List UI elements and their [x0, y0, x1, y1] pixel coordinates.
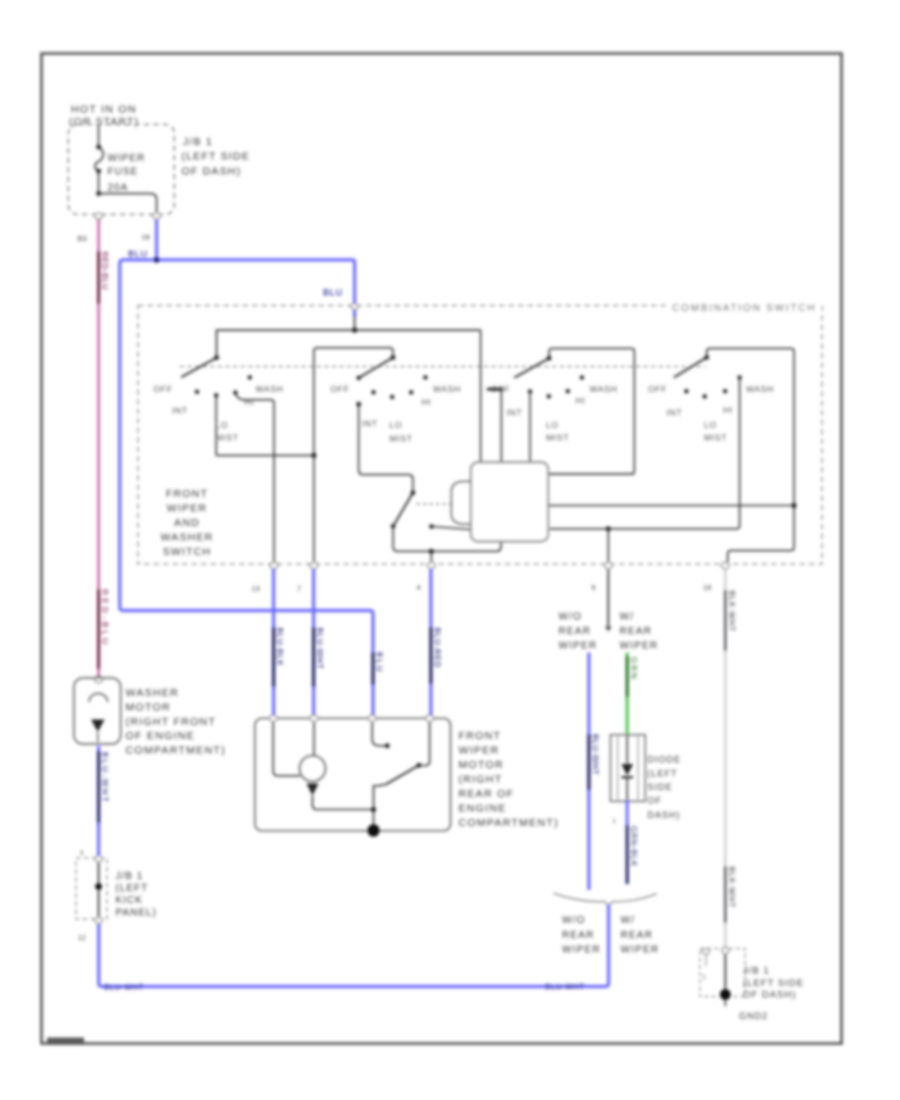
- svg-text:LO: LO: [704, 420, 717, 430]
- svg-text:HOT IN ON: HOT IN ON: [71, 104, 137, 116]
- ground (wiper motor case): [367, 824, 379, 836]
- svg-text:BLU-BLK: BLU-BLK: [275, 628, 284, 667]
- blue feed wire from fuse: [155, 219, 158, 260]
- pink wire (washer feed): [97, 219, 100, 678]
- svg-text:(LEFT: (LEFT: [648, 769, 678, 779]
- svg-text:BLU-WHT: BLU-WHT: [315, 628, 324, 670]
- svg-text:W/: W/: [621, 915, 636, 926]
- svg-text:W/O: W/O: [559, 612, 583, 623]
- svg-text:AND: AND: [174, 517, 200, 529]
- svg-text:HI: HI: [422, 397, 432, 407]
- svg-text:12: 12: [78, 935, 86, 942]
- svg-text:MIST: MIST: [546, 433, 569, 443]
- svg-text:WIPER: WIPER: [620, 641, 659, 652]
- washer contact bar: [487, 388, 504, 391]
- svg-text:BLU-WHT: BLU-WHT: [545, 982, 585, 991]
- pin 6 wire and option split: [607, 569, 609, 630]
- svg-text:BLU-RED: BLU-RED: [432, 628, 441, 669]
- svg-text:OFF: OFF: [491, 384, 510, 394]
- svg-text:1: 1: [613, 818, 617, 825]
- svg-text:4: 4: [417, 583, 421, 592]
- svg-text:WIPER: WIPER: [562, 945, 601, 956]
- svg-text:18: 18: [142, 233, 150, 242]
- svg-text:W/O: W/O: [562, 915, 586, 926]
- top rail: [217, 330, 481, 358]
- svg-text:REAR: REAR: [621, 930, 654, 941]
- svg-text:RED-BLU: RED-BLU: [100, 252, 109, 291]
- switch group 3: [549, 348, 634, 474]
- svg-text:PANEL): PANEL): [116, 908, 157, 919]
- lower lever of group 2 (intermittent contact): [393, 493, 413, 527]
- svg-text:OFF: OFF: [648, 384, 667, 394]
- svg-text:WASH: WASH: [256, 384, 284, 394]
- svg-text:INT: INT: [507, 408, 523, 418]
- svg-text:INT: INT: [362, 419, 378, 429]
- svg-text:OF DASH): OF DASH): [743, 990, 796, 1001]
- svg-text:BLU: BLU: [375, 652, 384, 674]
- svg-text:(LEFT SIDE: (LEFT SIDE: [743, 978, 804, 989]
- svg-text:FUSE: FUSE: [108, 167, 139, 178]
- svg-text:W/: W/: [620, 612, 635, 623]
- svg-text:(RIGHT FRONT: (RIGHT FRONT: [126, 716, 217, 728]
- right J/B 1 ground box: [700, 949, 745, 997]
- wire color label underlays: [99, 251, 726, 923]
- intermittent relay: [451, 481, 471, 524]
- combination switch bottom pins: [270, 562, 729, 568]
- junction node (BLU feed to switch rail): [352, 327, 357, 332]
- svg-text:HI: HI: [245, 397, 255, 407]
- svg-text:FRONT: FRONT: [166, 488, 208, 500]
- diode: [611, 735, 646, 802]
- svg-text:OF: OF: [648, 796, 663, 806]
- front wiper and washer switch label: [161, 488, 214, 558]
- svg-text:GRN: GRN: [629, 657, 638, 681]
- switch group 1: [181, 358, 314, 564]
- svg-text:WIPER: WIPER: [108, 153, 146, 164]
- blue wire washer motor to kick panel J/B: [97, 746, 100, 857]
- svg-text:OFF: OFF: [331, 384, 350, 394]
- blue return wire to kick panel: [99, 905, 609, 987]
- switch group 2: [314, 348, 393, 456]
- svg-text:BLK-WHT: BLK-WHT: [727, 867, 736, 909]
- svg-text:WASH: WASH: [433, 384, 461, 394]
- mechanical gang dashed line: [180, 366, 706, 368]
- svg-text:COMPARTMENT): COMPARTMENT): [459, 817, 559, 829]
- washer motor: [95, 676, 103, 682]
- kick panel J/B: [76, 858, 107, 919]
- svg-text:WASHER: WASHER: [126, 687, 180, 699]
- svg-text:WIPER: WIPER: [167, 503, 207, 515]
- svg-text:5: 5: [80, 850, 84, 857]
- combination switch dashed box: [138, 306, 822, 565]
- svg-text:13: 13: [252, 584, 260, 593]
- svg-text:INT: INT: [667, 408, 683, 418]
- svg-text:REAR: REAR: [562, 930, 595, 941]
- svg-text:REAR: REAR: [559, 626, 592, 637]
- svg-text:DIODE: DIODE: [648, 755, 682, 765]
- svg-text:KICK: KICK: [116, 895, 143, 906]
- svg-text:OF ENGINE: OF ENGINE: [126, 730, 195, 742]
- svg-text:SWITCH: SWITCH: [163, 546, 212, 558]
- svg-text:HI: HI: [576, 396, 586, 406]
- svg-text:LO: LO: [390, 420, 403, 430]
- svg-text:WIPER: WIPER: [559, 641, 598, 652]
- svg-text:SIDE: SIDE: [648, 782, 673, 792]
- svg-text:DASH): DASH): [648, 810, 681, 820]
- svg-text:J/B 1: J/B 1: [743, 966, 770, 977]
- svg-text:ENGINE: ENGINE: [459, 803, 507, 815]
- svg-text:COMBINATION SWITCH: COMBINATION SWITCH: [672, 303, 816, 314]
- svg-text:WASH: WASH: [590, 384, 618, 394]
- blue wires to wiper motor: [272, 569, 275, 716]
- svg-text:MOTOR: MOTOR: [126, 701, 171, 713]
- svg-text:6: 6: [592, 583, 596, 592]
- border frame: [42, 54, 842, 1044]
- right white wire to ground: [724, 569, 726, 947]
- svg-text:WIPER: WIPER: [459, 745, 500, 757]
- svg-text:7: 7: [297, 584, 301, 593]
- svg-text:FRONT: FRONT: [459, 730, 502, 742]
- frame corner part-number blob: [47, 1038, 84, 1046]
- fuse box pins: [95, 213, 103, 219]
- svg-text:(RIGHT: (RIGHT: [459, 774, 503, 786]
- svg-text:WIPER: WIPER: [621, 945, 660, 956]
- ground G2 (J/B 1): [720, 989, 731, 1000]
- svg-text:BLU-WHT: BLU-WHT: [104, 983, 144, 992]
- svg-text:OF DASH): OF DASH): [182, 165, 242, 177]
- svg-text:REAR: REAR: [620, 626, 653, 637]
- svg-text:LO: LO: [216, 420, 229, 430]
- svg-text:RED-BLU: RED-BLU: [100, 589, 110, 647]
- svg-text:LO: LO: [546, 420, 559, 430]
- svg-text:WASH: WASH: [746, 384, 774, 394]
- J/B 1 fuse box (dashed): [68, 124, 174, 214]
- svg-text:BLU: BLU: [323, 288, 343, 298]
- switch group 4: [707, 348, 794, 564]
- svg-text:J/B 1: J/B 1: [183, 136, 213, 148]
- svg-text:(LEFT: (LEFT: [116, 883, 149, 894]
- wiper fuse 20A: [95, 124, 157, 214]
- svg-text:OFF: OFF: [154, 384, 173, 394]
- svg-text:REAR OF: REAR OF: [459, 788, 515, 800]
- svg-text:(LEFT SIDE: (LEFT SIDE: [182, 151, 250, 163]
- svg-text:1: 1: [703, 975, 707, 981]
- junction (kick panel J/B splice): [95, 883, 102, 890]
- svg-text:MOTOR: MOTOR: [459, 759, 504, 771]
- svg-text:BLK-WHT: BLK-WHT: [727, 591, 736, 633]
- svg-text:BLU-WHT: BLU-WHT: [590, 734, 599, 775]
- svg-text:COMPARTMENT): COMPARTMENT): [126, 745, 226, 757]
- svg-text:20A: 20A: [108, 183, 129, 194]
- svg-text:GRN-BLK: GRN-BLK: [629, 826, 638, 867]
- svg-text:MIST: MIST: [390, 434, 413, 444]
- svg-text:MIST: MIST: [704, 433, 727, 443]
- svg-text:(OR START): (OR START): [69, 116, 139, 128]
- svg-text:WASHER: WASHER: [161, 532, 214, 544]
- svg-text:J/B 1: J/B 1: [116, 871, 144, 882]
- svg-text:INT: INT: [172, 406, 188, 416]
- svg-text:BLU-WHT: BLU-WHT: [100, 752, 109, 804]
- svg-text:GND2: GND2: [739, 1011, 768, 1021]
- svg-text:B3: B3: [78, 234, 87, 243]
- svg-text:18: 18: [703, 583, 711, 592]
- svg-text:HI: HI: [723, 405, 733, 415]
- front wiper motor: [255, 718, 451, 831]
- svg-text:BLU: BLU: [128, 249, 148, 259]
- option merge bracket: [554, 893, 657, 905]
- svg-text:MIST: MIST: [216, 433, 239, 443]
